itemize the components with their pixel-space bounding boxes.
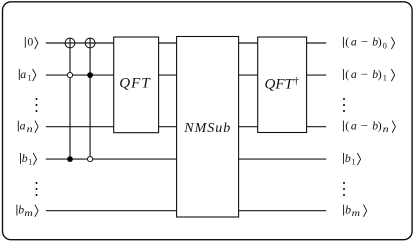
svg-text:(: ( — [345, 67, 349, 81]
wire q0 (ket0) — [46, 42, 326, 44]
filled control col2 on a1 — [87, 72, 93, 78]
svg-text:1: 1 — [383, 73, 387, 82]
svg-text:a: a — [20, 118, 26, 132]
svg-text:(: ( — [345, 35, 349, 49]
svg-text:m: m — [352, 208, 361, 218]
svg-text:): ) — [378, 118, 382, 132]
svg-text:NMSub: NMSub — [183, 121, 231, 136]
svg-text:): ) — [378, 67, 382, 81]
QFT gate box U1 — [114, 37, 159, 133]
vertical control wire col2 — [89, 38, 91, 159]
left label ket b1 — [21, 151, 37, 167]
wire q1 (a1) — [46, 74, 326, 76]
QFT-dagger gate box U3 — [258, 37, 307, 133]
left vdots between b1 and bm — [36, 182, 38, 196]
svg-text:1: 1 — [352, 157, 356, 166]
left label ket a1 — [19, 67, 36, 83]
NMSub gate box U2 — [177, 37, 239, 218]
right label ket b1 — [344, 151, 361, 167]
svg-text:−: − — [361, 118, 369, 132]
svg-text:a: a — [351, 35, 357, 49]
open control col1 on a1 — [67, 73, 72, 78]
right vdots between b1 and bm — [343, 182, 345, 196]
wire q2 (an) — [46, 126, 326, 128]
vertical control wire col1 — [69, 38, 71, 159]
wire q3 (b1) — [46, 158, 326, 160]
left vdots between a1 and an — [36, 98, 38, 112]
svg-text:n: n — [27, 124, 34, 134]
svg-text:1: 1 — [28, 73, 32, 82]
svg-text:1: 1 — [28, 157, 32, 166]
svg-text:−: − — [361, 35, 369, 49]
svg-text:): ) — [378, 35, 382, 49]
left label ket an — [18, 118, 38, 134]
right label ket (a-b)1 — [343, 67, 394, 83]
svg-text:a: a — [351, 67, 357, 81]
svg-text:b: b — [345, 202, 351, 216]
right label ket (a-b)n — [343, 118, 395, 134]
svg-text:b: b — [18, 202, 24, 216]
wire q4 (bm) — [46, 210, 326, 212]
svg-text:a: a — [351, 118, 357, 132]
right label ket bm — [344, 202, 367, 218]
CNOT target col2 on q0 — [85, 38, 95, 48]
right vdots between (a-b)1 and (a-b)n — [343, 98, 345, 112]
right label ket (a-b)0 — [343, 35, 394, 51]
svg-text:0: 0 — [383, 41, 387, 50]
CNOT target col1 on q0 — [65, 38, 75, 48]
svg-text:b: b — [345, 151, 351, 165]
svg-text:0: 0 — [27, 35, 33, 49]
left label ket bm — [17, 202, 38, 218]
filled control col1 on b1 — [67, 156, 73, 162]
left label ket0 — [25, 35, 38, 49]
svg-text:b: b — [22, 151, 28, 165]
svg-text:(: ( — [345, 118, 349, 132]
svg-text:†: † — [294, 76, 299, 87]
svg-text:QFT: QFT — [265, 76, 295, 92]
svg-text:QFT: QFT — [119, 76, 151, 92]
svg-text:a: a — [20, 67, 26, 81]
svg-text:m: m — [24, 208, 33, 218]
svg-text:n: n — [383, 124, 390, 134]
svg-text:−: − — [361, 67, 369, 81]
open control col2 on b1 — [88, 157, 93, 162]
